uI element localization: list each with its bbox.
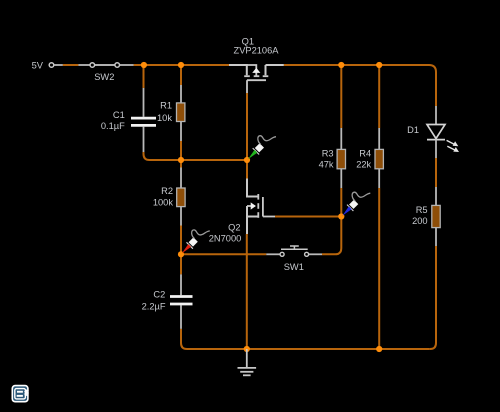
label Q1 (242, 37, 254, 47)
switch SW2 (78, 63, 133, 68)
ground symbol (238, 349, 257, 375)
probe red (182, 230, 210, 254)
switch SW1 pushbutton (266, 246, 322, 256)
svg-text:ZVP2106A: ZVP2106A (234, 45, 280, 55)
wire top rail 5V segment B (134, 64, 229, 66)
label R1 value 10k (157, 100, 172, 123)
wire R4 bottom to ground rail (378, 188, 380, 349)
wire Q2 drain up to green node (246, 160, 248, 179)
svg-text:SW2: SW2 (94, 72, 114, 82)
wire R2 bottom (180, 226, 182, 255)
wire R2 top (180, 160, 182, 168)
resistor R2 (177, 168, 185, 226)
svg-text:Q2: Q2 (228, 222, 240, 232)
label R2 value 100k (153, 186, 174, 207)
wire R3 top (340, 65, 342, 128)
label D1 (407, 125, 419, 135)
label C2 value 2.2uF (142, 289, 166, 311)
svg-text:C2: C2 (153, 289, 165, 299)
svg-text:100k: 100k (153, 197, 174, 207)
wire R3 bottom (340, 188, 342, 217)
label SW1 (284, 262, 304, 272)
resistor R3 (337, 128, 345, 188)
wire row2 node to Q1 gate node (181, 159, 247, 161)
capacitor C2 (170, 274, 193, 328)
wire top rail drain to right column (284, 65, 436, 106)
svg-text:5V: 5V (32, 60, 44, 70)
wire Q2 gate to blue node (275, 216, 341, 218)
wire row4 red node to SW1 (181, 253, 266, 255)
junction node green probe (244, 157, 250, 163)
svg-text:R5: R5 (416, 205, 428, 215)
transistor Q2 NMOS 2N7000 (247, 179, 275, 235)
wire LED to R5 (435, 158, 437, 187)
transistor Q1 PMOS ZVP2106A (229, 65, 284, 93)
resistor R4 (375, 128, 383, 188)
junction node top rail at R4 (376, 62, 382, 68)
wire R1 bottom (180, 141, 182, 160)
svg-text:SW1: SW1 (284, 262, 304, 272)
diode D1 LED (427, 106, 459, 158)
label 2N7000 (209, 233, 242, 243)
junction node ground rail at R4 (376, 346, 382, 352)
wire Q2 source down to ground rail (246, 234, 248, 349)
junction node ground rail at Q2 source (244, 346, 250, 352)
wire C1 column upper (143, 65, 145, 88)
svg-text:0.1µF: 0.1µF (101, 121, 125, 131)
svg-text:R1: R1 (160, 100, 172, 110)
label R4 value 22k (356, 148, 371, 169)
svg-text:200: 200 (412, 216, 428, 226)
svg-text:2N7000: 2N7000 (209, 233, 242, 243)
junction node red probe (178, 251, 184, 257)
resistor R5 (432, 187, 440, 246)
svg-text:R2: R2 (161, 186, 173, 196)
svg-text:C1: C1 (113, 110, 125, 120)
capacitor C1 (131, 88, 156, 152)
wire Q1 gate down (246, 93, 248, 160)
net label 5V (32, 60, 44, 70)
wire R1 top (180, 65, 182, 85)
svg-text:R4: R4 (359, 148, 371, 158)
wire C2 top (180, 254, 182, 274)
label R5 value 200 (412, 205, 428, 226)
junction node top rail at R1 (178, 62, 184, 68)
wire C1 bottom corner to node (144, 152, 182, 160)
wire top rail 5V segment A (63, 64, 79, 66)
label C1 value 0.1uF (101, 110, 125, 131)
label ZVP2106A (234, 45, 280, 55)
wire ground rail (181, 246, 436, 349)
label R3 value 47k (319, 148, 334, 169)
label Q2 (228, 222, 240, 232)
svg-text:10k: 10k (157, 113, 172, 123)
probe blue (342, 192, 370, 216)
label SW2 (94, 72, 114, 82)
probe green (248, 136, 276, 160)
svg-text:R3: R3 (322, 148, 334, 158)
wire R4 top (378, 65, 380, 128)
wire SW1 right corner up to blue node (322, 217, 341, 255)
svg-text:47k: 47k (319, 160, 334, 170)
junction node top rail at R3 (338, 62, 344, 68)
junction node top rail at C1 (141, 62, 147, 68)
app logo (12, 385, 29, 403)
svg-text:22k: 22k (356, 160, 371, 170)
junction node row2 at R1/R2 (178, 157, 184, 163)
junction node blue probe (338, 213, 344, 219)
svg-text:2.2µF: 2.2µF (142, 301, 166, 311)
svg-text:D1: D1 (407, 125, 419, 135)
node 5V terminal (49, 63, 63, 68)
resistor R1 (177, 85, 185, 141)
